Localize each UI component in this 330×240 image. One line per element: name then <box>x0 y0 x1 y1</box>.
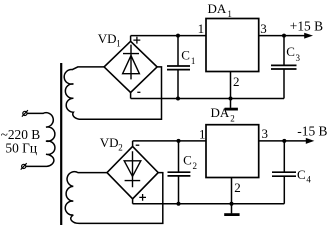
svg-text:VD: VD <box>98 31 117 46</box>
svg-text:+15 В: +15 В <box>290 18 323 33</box>
svg-text:3: 3 <box>296 53 301 63</box>
svg-text:50 Гц: 50 Гц <box>5 141 37 156</box>
svg-text:1: 1 <box>227 9 232 19</box>
svg-text:1: 1 <box>191 56 196 66</box>
svg-text:2: 2 <box>233 74 240 89</box>
svg-text:2: 2 <box>234 180 241 195</box>
svg-text:3: 3 <box>262 126 269 141</box>
svg-text:2: 2 <box>230 114 235 124</box>
svg-text:-15 В: -15 В <box>297 124 327 139</box>
svg-text:C: C <box>183 153 192 168</box>
svg-text:C: C <box>286 44 295 59</box>
svg-text:2: 2 <box>193 161 198 171</box>
svg-text:DA: DA <box>211 105 230 120</box>
svg-text:VD: VD <box>100 135 119 150</box>
svg-text:3: 3 <box>260 21 267 36</box>
svg-text:1: 1 <box>198 21 205 36</box>
svg-text:DA: DA <box>208 1 227 16</box>
svg-text:C: C <box>297 167 306 182</box>
svg-text:1: 1 <box>199 126 206 141</box>
svg-text:1: 1 <box>116 39 121 49</box>
svg-text:C: C <box>181 48 190 63</box>
svg-text:4: 4 <box>306 175 311 185</box>
svg-text:2: 2 <box>118 143 123 153</box>
